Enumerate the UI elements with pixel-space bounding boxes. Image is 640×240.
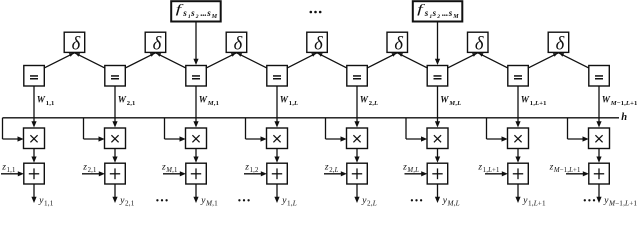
wire W_M,1 from E3 to multiplier X3	[193, 86, 198, 128]
wire X4 to adder A4	[274, 149, 279, 163]
wire E7 to D6	[478, 53, 508, 68]
svg-text:L: L	[292, 200, 297, 208]
svg-text:L: L	[372, 200, 377, 208]
multiplier node X6	[427, 128, 448, 149]
label W_1,L	[280, 94, 298, 107]
label W_M−1,L+1	[602, 94, 637, 107]
svg-text:1: 1	[132, 100, 135, 107]
label z_2,1	[82, 162, 96, 174]
wire F2 to equality node E6	[435, 22, 440, 66]
label y_M,L	[442, 196, 460, 207]
svg-text:z: z	[244, 162, 249, 172]
label y_2,1	[119, 196, 135, 207]
svg-text:1: 1	[51, 100, 54, 107]
factor node F2 f_s1s2...sM	[413, 1, 463, 21]
wire E3 to D3	[206, 53, 237, 68]
delta node D6	[468, 32, 489, 54]
wire h bus to multiplier X2	[84, 118, 105, 142]
label W_1,1	[37, 94, 54, 107]
wire output y_1,L from adder A4	[274, 184, 279, 203]
svg-text:W: W	[440, 94, 449, 104]
svg-text:z: z	[324, 162, 329, 172]
label y_M,1	[200, 196, 218, 207]
wire E5 to D5	[367, 53, 397, 68]
svg-text:L: L	[334, 167, 339, 174]
equality node E3	[186, 66, 207, 87]
svg-text:M: M	[211, 14, 218, 20]
svg-text:h: h	[621, 112, 627, 123]
svg-text:z: z	[402, 162, 407, 172]
wire W_1,L+1 from E7 to multiplier X7	[515, 86, 520, 128]
svg-text:W: W	[360, 94, 369, 104]
svg-text:s: s	[206, 8, 211, 18]
svg-text:s: s	[424, 8, 429, 18]
svg-text:W: W	[118, 94, 127, 104]
delta node D5	[387, 32, 408, 54]
adder node A5	[347, 163, 368, 184]
wire output y_2,1 from adder A2	[112, 184, 117, 203]
multiplier node X1	[24, 128, 45, 149]
svg-text:W: W	[37, 94, 46, 104]
wire W_M−1,L+1 from E8 to multiplier X8	[596, 86, 601, 128]
svg-text:1: 1	[214, 200, 218, 208]
label z_M−1,L+1	[549, 162, 581, 174]
multiplier node X3	[186, 128, 207, 149]
ellipsis	[238, 199, 250, 201]
wire E7 to D7	[528, 53, 559, 68]
wire h bus to multiplier X6	[406, 118, 427, 142]
label W_M,L	[440, 94, 461, 107]
wire E4 to D3	[237, 53, 268, 68]
label z_1,1	[1, 162, 15, 174]
ellipsis	[411, 199, 423, 201]
wire output y_2,L from adder A5	[354, 184, 359, 203]
wire z_M,1 into adder A3	[163, 171, 186, 176]
wire output y_M,L from adder A6	[435, 184, 440, 203]
wire h bus to multiplier X5	[326, 118, 347, 142]
wire W_M,L from E6 to multiplier X6	[435, 86, 440, 128]
wire X5 to adder A5	[354, 149, 359, 163]
svg-text:L: L	[414, 167, 419, 174]
svg-text:δ: δ	[394, 34, 403, 54]
wire W_2,L from E5 to multiplier X5	[354, 86, 359, 128]
wire X6 to adder A6	[435, 149, 440, 163]
svg-text:2: 2	[195, 14, 199, 20]
svg-text:1: 1	[542, 200, 546, 208]
svg-text:z: z	[477, 162, 482, 172]
svg-text:L: L	[293, 100, 298, 107]
svg-text:δ: δ	[72, 34, 81, 54]
label W_2,1	[118, 94, 135, 107]
label z_M,L	[402, 162, 419, 174]
ellipsis	[156, 199, 168, 201]
adder node A7	[508, 163, 529, 184]
svg-text:1: 1	[131, 200, 135, 208]
svg-text:z: z	[549, 162, 554, 172]
delta node D1	[64, 32, 85, 54]
wire W_2,1 from E2 to multiplier X2	[112, 86, 117, 128]
adder node A1	[24, 163, 45, 184]
svg-text:1: 1	[496, 167, 499, 174]
label z_M,1	[161, 162, 177, 174]
svg-text:1: 1	[50, 200, 54, 208]
label y_1,1	[38, 196, 54, 207]
adder node A2	[105, 163, 126, 184]
wire E1 to D1	[44, 53, 75, 68]
svg-text:L: L	[373, 100, 378, 107]
svg-text:1: 1	[174, 167, 177, 174]
equality node E1	[24, 66, 45, 87]
wire output y_M−1,L+1 from adder A8	[596, 184, 601, 203]
wire h bus to multiplier X8	[568, 118, 589, 142]
wire z_M,L into adder A6	[405, 171, 428, 176]
adder node A8	[589, 163, 610, 184]
svg-text:1: 1	[93, 167, 96, 174]
wire z_1,1 into adder A1	[1, 171, 24, 176]
delta node D7	[548, 32, 569, 54]
wire h bus	[3, 117, 620, 119]
wire z_M−1,L+1 into adder A8	[566, 171, 589, 176]
wire z_2,1 into adder A2	[82, 171, 105, 176]
wire E8 to D7	[559, 53, 590, 68]
multiplier node X7	[508, 128, 529, 149]
wire z_2,L into adder A5	[324, 171, 347, 176]
wire W_1,L from E4 to multiplier X4	[274, 86, 279, 128]
equality node E2	[105, 66, 126, 87]
label z_1,2	[244, 162, 259, 174]
svg-text:z: z	[1, 162, 6, 172]
adder node A4	[267, 163, 288, 184]
wire X7 to adder A7	[515, 149, 520, 163]
wire h bus to multiplier X3	[165, 118, 186, 142]
label W_M,1	[199, 94, 219, 107]
delta node D4	[307, 32, 328, 54]
svg-text:s: s	[182, 8, 187, 18]
wire h bus to multiplier X7	[487, 118, 508, 142]
wire E5 to D4	[317, 53, 347, 68]
svg-text:L: L	[455, 200, 460, 208]
svg-text:1: 1	[12, 167, 15, 174]
equality node E6	[427, 66, 448, 87]
factor node F1 f_s1s2...sM	[171, 1, 221, 21]
wire output y_1,L+1 from adder A7	[515, 184, 520, 203]
equality node E8	[589, 66, 610, 87]
multiplier node X8	[589, 128, 610, 149]
svg-text:1: 1	[216, 100, 219, 107]
svg-text:L: L	[456, 100, 461, 107]
svg-text:z: z	[161, 162, 166, 172]
wire E2 to D1	[75, 53, 106, 68]
wire X1 to adder A1	[31, 149, 36, 163]
svg-text:s: s	[190, 8, 195, 18]
wire output y_M,1 from adder A3	[193, 184, 198, 203]
svg-text:z: z	[82, 162, 87, 172]
wire z_1,L+1 into adder A7	[485, 171, 508, 176]
delta node D2	[145, 32, 166, 54]
wire E3 to D2	[156, 53, 187, 68]
wire F1 to equality node E3	[193, 22, 198, 66]
wire E4 to D4	[287, 53, 317, 68]
wire h bus to multiplier X1	[3, 118, 24, 142]
label z_1,L+1	[477, 162, 499, 174]
equality node E5	[347, 66, 368, 87]
multiplier node X2	[105, 128, 126, 149]
svg-text:1: 1	[633, 200, 637, 208]
svg-text:W: W	[602, 94, 611, 104]
svg-text:W: W	[521, 94, 530, 104]
svg-text:1: 1	[634, 100, 637, 107]
equality node E7	[508, 66, 529, 87]
wire E6 to D6	[447, 53, 478, 68]
label y_2,L	[361, 196, 377, 207]
label y_1,L+1	[522, 196, 546, 207]
wire X3 to adder A3	[193, 149, 198, 163]
svg-text:2: 2	[255, 167, 259, 174]
label z_2,L	[324, 162, 339, 174]
svg-text:1: 1	[543, 100, 546, 107]
svg-text:δ: δ	[153, 34, 162, 54]
ellipsis between factor nodes	[310, 11, 322, 14]
svg-text:δ: δ	[234, 34, 243, 54]
svg-text:δ: δ	[314, 34, 323, 54]
svg-text:δ: δ	[556, 34, 565, 54]
label W_1,L+1	[521, 94, 547, 107]
wire output y_1,1 from adder A1	[31, 184, 36, 203]
wire h bus to multiplier X4	[246, 118, 267, 142]
svg-text:1: 1	[577, 167, 580, 174]
wire X2 to adder A2	[112, 149, 117, 163]
multiplier node X4	[267, 128, 288, 149]
ellipsis	[584, 199, 596, 201]
svg-text:2: 2	[436, 14, 440, 20]
wire W_1,1 from E1 to multiplier X1	[31, 86, 36, 128]
wire E6 to D5	[397, 53, 428, 68]
svg-text:W: W	[199, 94, 208, 104]
label W_2,L	[360, 94, 378, 107]
svg-text:s: s	[448, 8, 453, 18]
label h	[621, 112, 627, 123]
svg-text:M: M	[452, 14, 459, 20]
svg-text:W: W	[280, 94, 289, 104]
wire z_1,2 into adder A4	[244, 171, 267, 176]
adder node A6	[427, 163, 448, 184]
label y_1,L	[281, 196, 297, 207]
wire X8 to adder A8	[596, 149, 601, 163]
adder node A3	[186, 163, 207, 184]
multiplier node X5	[347, 128, 368, 149]
label y_M−1,L+1	[603, 196, 637, 207]
svg-text:s: s	[432, 8, 437, 18]
svg-text:δ: δ	[475, 34, 484, 54]
equality node E4	[267, 66, 288, 87]
wire E2 to D2	[125, 53, 156, 68]
delta node D3	[226, 32, 247, 54]
